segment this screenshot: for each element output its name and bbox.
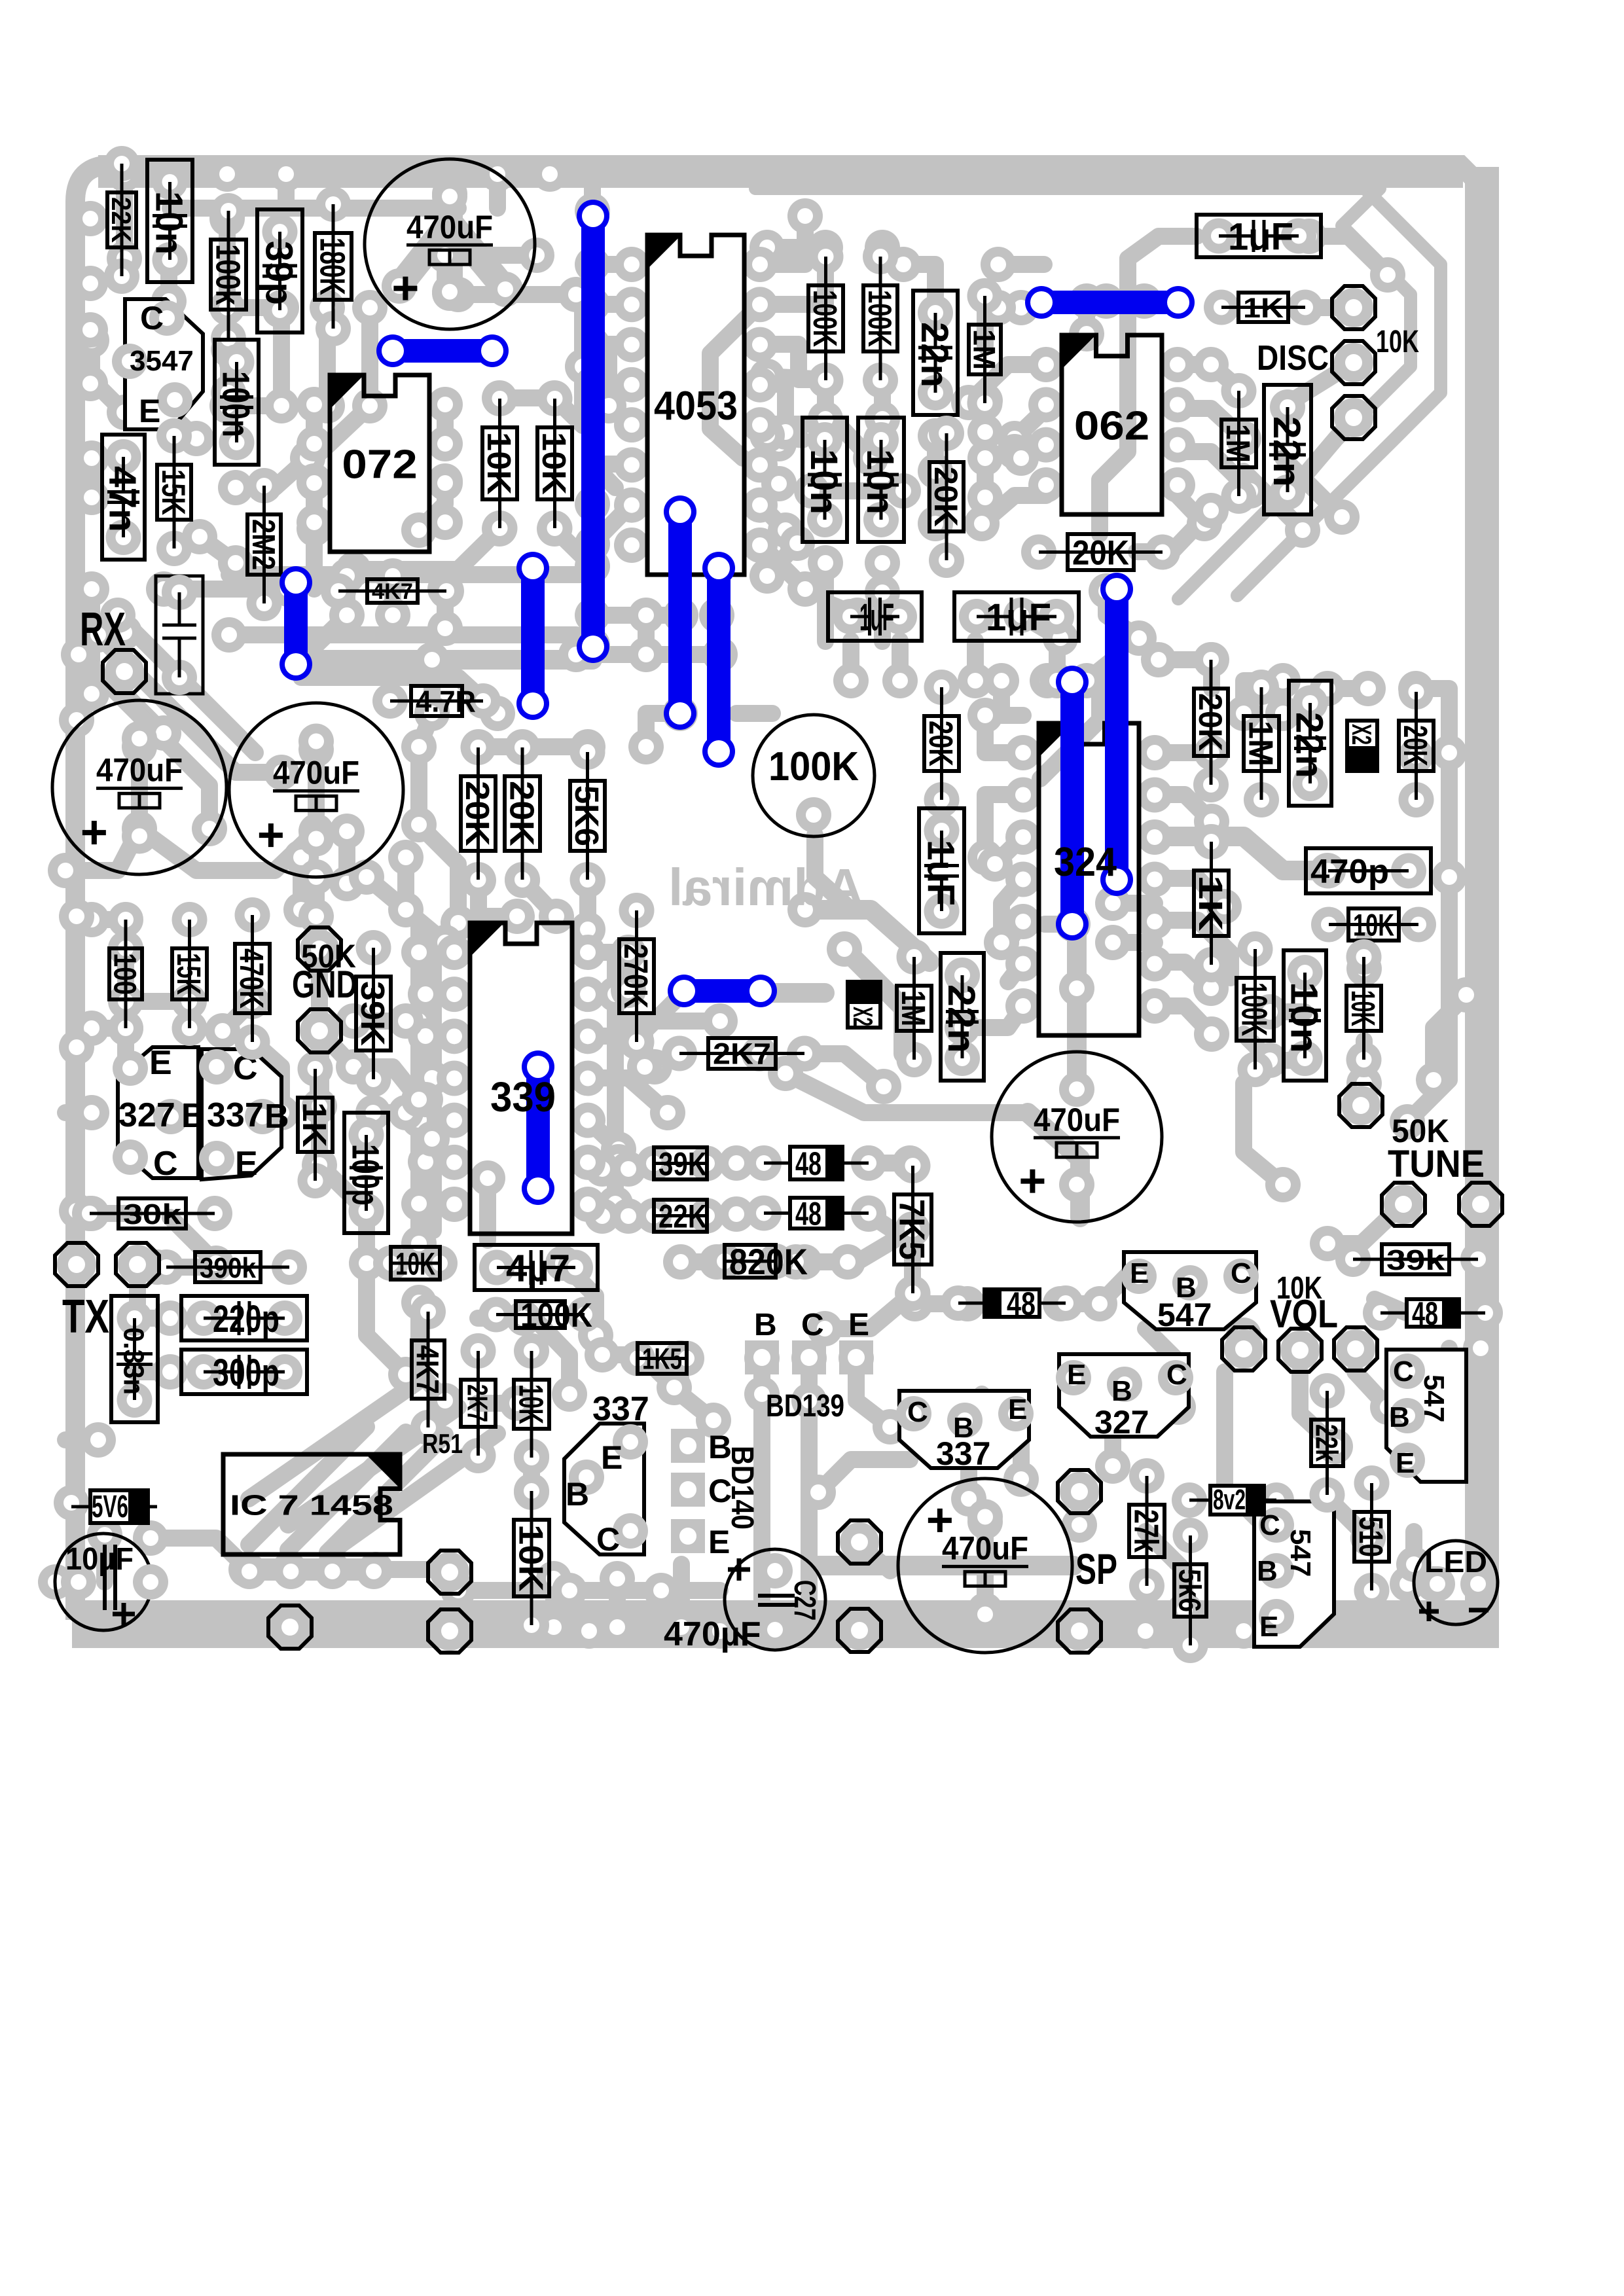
diode 5V6 [71,1505,157,1509]
resistor R22 [1310,853,1346,889]
pad (octagonal) [840,1522,879,1562]
op-amp U062 [1028,347,1064,382]
wire [1178,356,1211,373]
wire [1128,236,1197,259]
resistor R8 [537,381,573,416]
wire [1244,1034,1305,1060]
wire [425,986,454,1003]
wire [681,1253,717,1270]
wire [998,256,1044,273]
wire [1001,681,1023,715]
wire [869,1155,910,1172]
resistor R31 [662,1036,697,1071]
wire [200,537,236,563]
transistor Q6 327 [1059,1354,1189,1437]
wire [563,1263,596,1335]
wire [554,529,592,566]
resistor R45 [636,1146,672,1181]
wire [301,650,592,670]
wire [927,484,944,524]
wire [1071,1492,1088,1525]
wire [425,1153,454,1170]
wire [249,1381,419,1499]
wire [767,543,797,576]
resistor R13 [967,278,1003,314]
svg-text:BD140: BD140 [725,1446,759,1530]
resistor R25 [1238,931,1273,967]
svg-text:470uF: 470uF [1034,1102,1120,1138]
resistor R42 [461,1333,496,1369]
wire [419,952,454,1021]
wire [1356,1041,1373,1083]
wire [450,223,505,289]
wire [1441,877,1458,941]
capacitor C2 [52,700,226,874]
resistor R52 [1173,1518,1208,1553]
wire [499,389,554,406]
wire [1178,452,1250,491]
wire [134,1310,170,1327]
wire [308,877,325,916]
wire [736,705,772,722]
wire [736,1155,765,1172]
wire [1155,920,1231,978]
wire [842,641,859,681]
wire [1244,681,1283,713]
resistor R37 [72,1196,107,1231]
wire [419,481,445,530]
resistor R11 [808,239,844,274]
wire jumper W8 [1060,682,1084,924]
resistor R18 [1193,642,1229,677]
wire [760,544,805,589]
wire [1021,299,1044,316]
wire [83,458,100,497]
wire [815,835,851,910]
wire [249,1427,367,1545]
pad (octagonal) [270,1607,310,1647]
wire [1021,615,1060,638]
wire [545,1579,562,1627]
wire jumper W2 [581,216,605,647]
wire [588,1153,619,1170]
wire [1155,962,1211,988]
wire [673,1590,690,1611]
svg-text:4053: 4053 [654,384,738,429]
wire [65,1431,98,1448]
wire [579,880,596,929]
transistor Q7 337 [899,1391,1029,1468]
wire [977,458,994,497]
wire [592,607,681,624]
wire [1165,1304,1244,1335]
svg-text:48: 48 [795,1196,821,1232]
wire [844,949,903,1054]
capacitor C30 [475,1245,598,1290]
wire [588,1195,615,1212]
resistor R19 [1244,670,1279,705]
wire [96,1535,113,1582]
wire [170,200,458,217]
wire [227,308,281,406]
wire [68,720,85,916]
wire [353,1013,406,1030]
resistor R27 [461,730,496,765]
resistor R21 [1194,824,1229,859]
svg-text:10K: 10K [1376,325,1419,359]
wire [812,482,903,499]
resistor R36 [298,1051,333,1086]
wire [609,344,632,424]
wire [522,880,556,916]
wire [805,910,929,962]
resistor R35 [235,897,270,933]
capacitor C4 [992,1052,1162,1222]
svg-text:BD139: BD139 [766,1389,844,1424]
wire [736,1206,765,1223]
wire [673,1564,690,1611]
wire [126,1028,157,1086]
wire [609,1579,626,1627]
wire [425,936,442,1230]
svg-text:C: C [596,1521,620,1558]
resistor R26 [1346,939,1382,975]
wire jumper W4 [521,568,545,704]
wire [223,1001,252,1031]
wire [151,1538,246,1568]
svg-text:C: C [1166,1359,1187,1391]
wire [602,1355,674,1388]
svg-text:100K: 100K [768,744,859,789]
pad (octagonal) [1334,398,1373,437]
capacitor C12 [102,435,145,560]
wire [478,1395,517,1412]
wire [681,1358,713,1420]
wire [1080,1374,1113,1466]
wire [252,1041,281,1113]
svg-text:E: E [1259,1611,1278,1643]
wire [227,219,281,308]
wire [92,1020,126,1037]
wire [220,350,237,393]
wire [1270,1003,1305,1020]
wire [760,384,785,432]
resistor R40 [478,1297,514,1333]
svg-text:E: E [848,1308,869,1342]
svg-text:B: B [566,1476,589,1513]
svg-text:C: C [801,1308,824,1342]
wire [301,576,347,660]
resistor R47 [707,1244,742,1279]
resistor R30 [619,893,655,928]
wire [419,660,432,747]
wire [760,424,871,458]
wire jumper W1 [393,339,492,363]
wire [1291,418,1354,491]
wire [592,464,632,504]
svg-text:470uF: 470uF [406,209,493,245]
wire [1045,916,1073,933]
wire [478,880,517,916]
wire [874,592,891,641]
pad (octagonal) [118,1245,157,1284]
wire [92,911,126,928]
capacitor C24 [1284,950,1326,1081]
svg-text:B: B [1111,1375,1132,1407]
wire [1178,408,1244,439]
wire [1244,1083,1283,1185]
wire [904,1229,921,1293]
wire [1416,689,1449,753]
svg-text:B: B [1389,1401,1410,1433]
wire [588,1036,655,1067]
wire [288,1407,458,1525]
resistor R38 [149,1249,184,1285]
wire [83,589,100,694]
pad (octagonal) [1334,288,1373,327]
resistor R7 [482,381,518,416]
wire [985,715,1023,753]
wire [353,1067,419,1100]
wire [1407,1575,1434,1592]
wire [327,1435,445,1552]
capacitor C27 470uF [725,1549,825,1650]
diode D2 [746,1196,782,1231]
capacitor C15 [913,291,958,415]
wire [373,1104,406,1121]
svg-text:547: 547 [1284,1529,1316,1577]
capacitor C17 [858,418,904,542]
resistor R20 [1399,674,1434,709]
resistor R49 [1335,1242,1371,1277]
wire [929,1414,969,1499]
wire [1178,188,1411,599]
wire [293,857,310,910]
svg-text:547: 547 [1418,1374,1450,1422]
resistor R51v [1129,1458,1164,1494]
wire [592,256,632,273]
svg-text:LED: LED [1424,1545,1487,1579]
wire [306,481,323,529]
svg-text:B: B [264,1098,289,1136]
wire [384,576,401,615]
capacitor C16 [803,418,847,542]
wire [967,641,984,681]
resistor R23 [1311,907,1346,942]
capacitor C21 [1289,681,1331,806]
pad (octagonal) [1060,1472,1099,1511]
svg-text:E: E [601,1439,623,1476]
transistor BD139 pads [745,1340,779,1374]
wire [1015,408,1046,439]
op-amp U072 [297,387,332,422]
resistor R33 [108,902,143,937]
wire [892,641,909,681]
pad (octagonal) [840,1611,879,1650]
potentiometer 100K [753,715,875,836]
wire jumper W6 [707,568,731,751]
wire [753,1374,770,1611]
resistor R39 [373,1246,408,1281]
diode D3 [941,1285,976,1321]
capacitor C5 [898,1479,1072,1653]
diode X2 (left) [848,982,880,1028]
wire [554,398,583,425]
wire [478,738,588,755]
wire [1001,878,1023,942]
wire [760,344,825,380]
svg-text:C: C [1393,1355,1414,1388]
wire [646,713,680,747]
wire [760,216,805,264]
wire [982,1394,1021,1479]
wire [1283,458,1342,517]
capacitor C25 [344,1113,388,1233]
resistor R10 [1204,290,1239,325]
wire [602,1208,628,1225]
capacitor C29 [111,1296,158,1422]
wire [1015,443,1046,460]
svg-text:5V6: 5V6 [92,1490,128,1524]
pad (octagonal) [300,929,339,969]
wire [1335,1505,1368,1538]
svg-text:SP: SP [1075,1545,1117,1593]
wire [708,615,725,655]
wire [432,1078,454,1139]
svg-text:X2: X2 [1346,724,1377,745]
wire [229,626,576,643]
wire [602,1160,628,1177]
wire [638,615,655,655]
svg-text:470uF: 470uF [942,1530,1028,1567]
wire [1472,1259,1489,1348]
wire [236,458,308,488]
capacitor C20 [954,592,1079,641]
wire [170,1217,216,1263]
diode X2 (right) [1347,721,1377,771]
wire [1155,878,1224,906]
wire [767,435,803,440]
resistor R53 [1310,1373,1345,1408]
pad (octagonal) [430,1552,469,1592]
transistor Q2 327 [118,1047,198,1178]
wire [1008,920,1023,942]
wire [1067,933,1087,1089]
svg-text:48: 48 [1007,1285,1036,1322]
wire [825,563,857,615]
capacitor C11 [257,209,302,332]
wire [1244,471,1303,530]
svg-text:C: C [140,300,164,336]
wire [314,308,370,458]
wire [818,1556,1074,1575]
wire [1178,495,1204,524]
wire [129,1265,146,1309]
transistor Q8 547 [1386,1350,1466,1482]
capacitor C26 [181,1296,307,1340]
svg-text:C: C [907,1396,928,1428]
svg-text:DISC: DISC [1257,338,1329,378]
transistor Q4 337 [564,1424,644,1554]
capacitor C23 [941,953,984,1081]
resistor R50 [514,1473,549,1509]
wire [68,1047,85,1211]
wire [805,1054,884,1086]
wire [1155,836,1327,870]
capacitor C13 [215,340,259,465]
wire [1113,895,1155,912]
svg-text:E: E [139,393,160,429]
resistor R5 [247,468,282,503]
wire [92,1205,134,1222]
wire [817,380,834,419]
wire [588,986,615,1003]
resistor R29 [570,734,605,770]
wire jumper W10 [526,1067,550,1189]
wire [327,1433,497,1554]
capacitor C28 [181,1350,307,1394]
wire [437,406,454,444]
wire [817,602,834,641]
resistor R14 [929,416,964,451]
op-amp U4053 [614,247,649,282]
wire [116,174,133,259]
resistor R34 [172,902,208,937]
transistor BD140 pads [671,1429,705,1463]
capacitor C1 [365,159,535,329]
wire [592,464,615,488]
wire [760,424,779,444]
svg-text:E: E [1396,1447,1415,1479]
LED [1414,1541,1498,1624]
svg-text:48: 48 [1412,1295,1438,1332]
wire [995,836,1023,864]
wire [1441,753,1458,941]
wire [977,401,994,432]
wire [1356,941,1373,969]
wire [229,566,589,583]
wire [1472,1204,1489,1259]
wire [584,645,601,660]
resistor R15 [1021,535,1056,570]
wire [1327,1204,1403,1244]
wire [962,1006,1023,1028]
wire [1155,1006,1212,1034]
wire [818,1460,910,1492]
wire [767,376,825,380]
wire [1047,660,1113,681]
svg-text:339: 339 [490,1073,556,1121]
wire [65,829,139,870]
wire [755,188,1441,596]
wire [311,1106,328,1165]
wire [576,646,720,663]
wire [985,308,1021,346]
wire [1155,744,1212,761]
wire [1146,1623,1244,1640]
resistor R17 [924,670,960,705]
wire [79,655,209,829]
wire [856,1358,890,1427]
wire [1106,591,1139,638]
svg-text:Admiral: Admiral [668,858,863,916]
resistor R44 [620,1341,655,1376]
wire [523,1456,540,1492]
wire [985,795,1023,857]
wire [1355,1372,1388,1407]
wire [131,747,148,829]
wire [615,1013,720,1030]
